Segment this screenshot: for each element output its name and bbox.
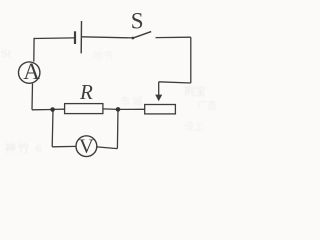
rheostat wiper arrow shaft bbox=[158, 82, 160, 96]
svg-text:神竹 6: 神竹 6 bbox=[5, 141, 43, 155]
svg-text:S: S bbox=[131, 9, 144, 34]
wire battery to switch bbox=[82, 37, 133, 38]
svg-text:荆宝: 荆宝 bbox=[184, 84, 206, 98]
wire left vertical upper bbox=[33, 38, 35, 62]
voltmeter branch: left vertical wire bbox=[51, 110, 54, 147]
svg-text:地书: 地书 bbox=[93, 49, 113, 62]
svg-text:广态: 广态 bbox=[197, 99, 217, 112]
voltmeter V circle bbox=[76, 136, 97, 157]
wire right vertical bbox=[190, 37, 192, 83]
battery BT1 long plate (positive) bbox=[80, 21, 82, 53]
svg-text:设上: 设上 bbox=[184, 121, 204, 133]
svg-text:V: V bbox=[79, 136, 94, 158]
wire rheostat to right node bbox=[118, 108, 145, 110]
battery BT1 short plate (negative) bbox=[74, 31, 76, 44]
wire left node to ammeter corner bbox=[32, 109, 53, 111]
wire resistor R to left node bbox=[53, 108, 65, 110]
junction node right bbox=[116, 107, 121, 112]
svg-text:St: St bbox=[1, 46, 12, 60]
wire up to ammeter A bbox=[31, 84, 34, 110]
junction node left bbox=[50, 107, 55, 112]
ammeter A circle bbox=[19, 62, 40, 83]
wire corner to wiper arrow bbox=[159, 82, 191, 83]
wire to voltmeter V bbox=[52, 145, 76, 147]
svg-text:R: R bbox=[79, 80, 93, 104]
svg-text:市 城: 市 城 bbox=[120, 95, 143, 108]
rheostat RP box bbox=[145, 105, 176, 114]
wire top-left horizontal bbox=[34, 37, 74, 40]
svg-text:A: A bbox=[23, 59, 40, 84]
wire switch right contact to corner bbox=[156, 36, 191, 38]
voltmeter branch: right vertical wire bbox=[116, 109, 119, 148]
resistor R box bbox=[65, 104, 103, 114]
wire voltmeter to right vertical bbox=[97, 147, 118, 149]
wire right node to resistor R bbox=[103, 108, 118, 111]
switch S pivot dot bbox=[132, 37, 135, 40]
switch S blade bbox=[133, 32, 152, 39]
rheostat wiper arrowhead bbox=[155, 95, 162, 102]
